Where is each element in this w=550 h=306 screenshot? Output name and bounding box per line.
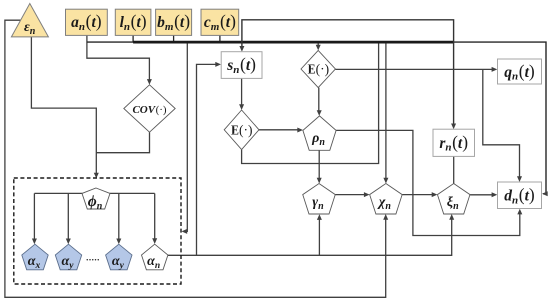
arrowhead into alpha_y2 top	[116, 239, 121, 245]
wire: branch up from alpha line into s_n(t) left	[197, 64, 219, 255]
arrowhead into d_n bottom	[517, 209, 522, 215]
wire: s_n(t) bottom down into E-lower top	[241, 78, 243, 106]
box d_n(t)	[498, 182, 542, 209]
pentagon alpha_y2 (blue)	[106, 244, 132, 271]
wire: top line from corner to r_n(t) top and down to s_n(t) top	[242, 20, 454, 126]
wire: phi_n left fan-out horizontal	[34, 192, 82, 194]
wire: alpha_n right output long horizontal and up into xi_n bottom	[168, 217, 452, 255]
wire: branch up from alpha line into gamma_n bottom	[318, 217, 320, 255]
wire: E-lower right into rho_n left	[259, 129, 300, 131]
arrowhead into xi_n left	[432, 192, 438, 197]
arrowhead into gamma_n top	[317, 178, 322, 184]
wire: main bus horizontal then right edge down into d_n(t) right	[87, 42, 546, 194]
wire: E-lower bottom loop right and up to bus	[242, 43, 379, 163]
svg-text:sn(t): sn(t)	[226, 54, 256, 76]
arrowhead into alpha_n top	[152, 238, 157, 244]
pentagon alpha_x (blue)	[22, 244, 48, 271]
arrowhead into chi_n bottom	[383, 214, 388, 220]
arrowhead into E-top diamond top	[316, 45, 321, 51]
pentagon gamma_n	[303, 184, 336, 215]
svg-text:dn(t): dn(t)	[504, 185, 535, 207]
wire: thick bus overlay segment	[133, 41, 454, 44]
arrowhead into q_n left	[492, 67, 498, 72]
svg-text:ln(t): ln(t)	[120, 11, 147, 33]
diamond E-top expectation	[301, 50, 335, 87]
wire: drop into alpha_n top	[154, 193, 156, 241]
input box a_n(t)	[66, 9, 108, 35]
pentagon alpha_y1 (blue)	[55, 244, 81, 271]
wire: rho_n right down right and up into d_n(t) bottom	[336, 130, 520, 235]
wire: c_m(t) drop to bus	[219, 35, 221, 42]
arrowhead into dashed box top edge	[94, 173, 99, 179]
wire: eps_n bottom output down-right-down to phi_n top	[31, 37, 96, 175]
arrowhead into alpha_x top	[32, 239, 37, 245]
wire: drop into alpha_x top	[33, 193, 35, 241]
pentagon rho_n	[303, 116, 336, 150]
wire: branch from q_n line down right down into d_n(t) top	[483, 69, 520, 178]
wire: COV output down-left joining phi_n feed	[96, 132, 149, 153]
arrowhead into d_n left	[492, 192, 498, 197]
svg-text:rn(t): rn(t)	[439, 132, 468, 154]
arrowhead into dashed box right edge	[182, 229, 188, 234]
arrowhead into gamma_n bottom	[317, 214, 322, 220]
box q_n(t)	[498, 59, 542, 84]
wire: drop into alpha_y1 top	[67, 193, 69, 241]
wire: E-top right to q_n(t) left	[335, 68, 494, 70]
wire: xi_n right into d_n(t) left	[470, 194, 494, 196]
wire: bus down into E-top diamond	[317, 43, 319, 47]
wire: rho_n bottom down into gamma_n top	[318, 150, 320, 180]
arrowhead into rho_n left	[297, 128, 303, 133]
diamond COV	[124, 85, 175, 132]
arrowhead into d_n right	[542, 191, 548, 196]
wire: b_m(t) drop to bus	[173, 35, 175, 42]
svg-text:qn(t): qn(t)	[504, 61, 535, 83]
diamond E-lower expectation	[224, 110, 259, 150]
wire: l_n(t) drop to bus	[132, 35, 134, 42]
arrowhead into s_n left	[215, 62, 221, 67]
wire: gamma_n right into chi_n left	[335, 194, 366, 196]
svg-text:.....: .....	[86, 249, 100, 264]
wire: drop into alpha_y2 top	[118, 193, 120, 241]
box s_n(t)	[221, 52, 262, 79]
input box l_n(t)	[115, 9, 151, 35]
input box c_m(t)	[201, 9, 239, 35]
arrowhead into xi_n bottom	[449, 214, 454, 220]
arrowhead into chi_n top	[383, 178, 388, 184]
wire: eps_n left feedback loop from alpha line down bottom and up to chi_n bottom	[5, 20, 386, 297]
wire: a_n(t) down-right-down into COV top	[87, 35, 149, 81]
arrowhead into rho_n top	[317, 110, 322, 116]
arrowhead into chi_n left	[364, 192, 370, 197]
dashed box around phi_n and alpha pentagons	[14, 178, 181, 284]
arrowhead into alpha_y1 top	[66, 239, 71, 245]
arrowhead into d_n top	[517, 176, 522, 182]
arrowhead into COV top	[147, 79, 152, 85]
pentagon phi_n	[82, 188, 110, 212]
arrowhead into E-lower diamond top	[239, 104, 244, 110]
wire: bus down into chi_n top	[385, 43, 387, 180]
svg-text:cm(t): cm(t)	[204, 11, 236, 33]
arrowhead into r_n top	[451, 124, 456, 130]
wire: phi_n right fan-out horizontal	[110, 192, 155, 194]
pentagon alpha_n (white)	[142, 244, 168, 271]
wire: chi_n right into xi_n left	[402, 194, 434, 196]
svg-text:an(t): an(t)	[71, 11, 102, 33]
box r_n(t)	[433, 129, 475, 156]
arrowhead into s_n top	[239, 46, 244, 52]
svg-text:COV(·): COV(·)	[132, 104, 166, 116]
wire: bus down to dashed box arrow	[185, 43, 187, 231]
pentagon chi_n	[370, 184, 403, 215]
wire: r_n(t) bottom down into xi_n top	[453, 156, 455, 183]
input box b_m(t)	[156, 9, 192, 35]
pentagon xi_n	[437, 184, 470, 215]
svg-text:bm(t): bm(t)	[157, 11, 190, 33]
triangle eps_n	[11, 4, 48, 37]
wire: E-top bottom down into rho_n top	[318, 88, 320, 113]
